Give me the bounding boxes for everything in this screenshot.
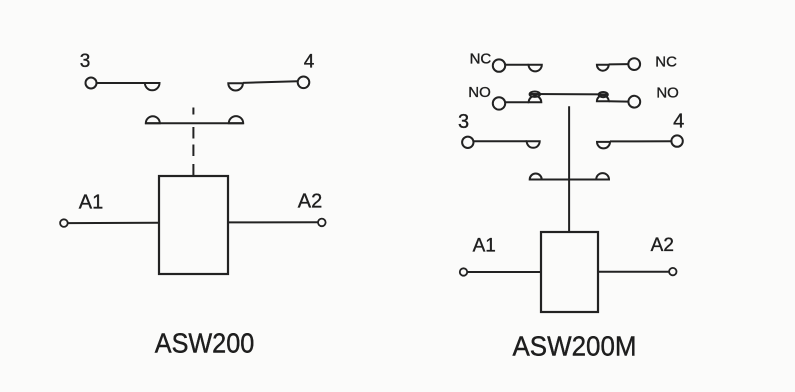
NO fixed contact dome left <box>529 96 542 102</box>
terminal NO right <box>628 96 640 108</box>
moving contact dome left <box>530 174 542 180</box>
wire coil to A2 <box>598 271 669 273</box>
terminal NC left <box>493 59 505 71</box>
moving contact bridge bar <box>145 122 244 124</box>
terminal A2 <box>318 219 326 227</box>
svg-text:3: 3 <box>80 51 91 72</box>
terminal 4 <box>671 135 682 146</box>
NO moving contact ellipse left <box>530 92 540 97</box>
svg-text:4: 4 <box>673 111 684 133</box>
svg-text:4: 4 <box>304 52 315 73</box>
NO moving contact ellipse right <box>599 92 608 97</box>
moving contact bridge bar <box>529 179 609 181</box>
terminal NO left <box>493 97 505 109</box>
svg-text:NO: NO <box>656 84 679 101</box>
fixed contact left (main pole) <box>527 141 540 148</box>
wire NO left <box>505 101 529 103</box>
svg-text:NC: NC <box>470 51 492 68</box>
actuator shaft <box>568 106 570 232</box>
wire fixed contact to terminal 4 <box>610 140 671 142</box>
NC fixed contact right <box>597 65 609 71</box>
svg-text:NC: NC <box>655 54 677 71</box>
wire A1 to coil <box>467 271 541 273</box>
fixed contact left (main pole) <box>145 83 160 90</box>
fixed contact right (main pole) <box>228 83 243 90</box>
svg-text:A1: A1 <box>473 236 496 257</box>
fixed contact right (main pole) <box>597 142 610 149</box>
svg-text:3: 3 <box>458 111 469 133</box>
svg-text:ASW200: ASW200 <box>155 328 255 359</box>
terminal NC right <box>628 58 640 70</box>
svg-text:ASW200M: ASW200M <box>513 331 637 362</box>
NO bridge bar <box>530 93 607 95</box>
wire terminal 3 to fixed contact <box>474 140 527 142</box>
svg-text:NO: NO <box>468 84 491 101</box>
wire NO right <box>609 100 629 102</box>
moving contact dome right <box>229 116 243 123</box>
NC fixed contact left <box>529 65 542 72</box>
actuator dashed link <box>192 108 194 177</box>
wire coil to A2 <box>228 221 318 223</box>
coil (ASW200M) <box>541 232 598 312</box>
coil (ASW200) <box>159 176 228 274</box>
terminal 4 <box>298 77 310 89</box>
wire A1 to coil <box>68 222 159 224</box>
terminal A1 <box>60 219 68 227</box>
wire fixed contact to terminal 4 <box>243 81 298 83</box>
terminal A1 <box>460 268 467 275</box>
wire terminal 3 to fixed contact <box>97 82 160 84</box>
moving contact dome right <box>596 173 609 179</box>
moving contact dome left <box>146 116 160 123</box>
svg-text:A2: A2 <box>651 235 674 256</box>
NO fixed contact dome right <box>597 95 609 101</box>
terminal A2 <box>669 268 676 275</box>
svg-text:A2: A2 <box>298 191 322 213</box>
svg-text:A1: A1 <box>79 192 103 214</box>
wire NC left <box>505 64 528 66</box>
terminal 3 <box>86 78 97 89</box>
terminal 3 <box>462 137 473 148</box>
wire NC right <box>609 63 629 65</box>
